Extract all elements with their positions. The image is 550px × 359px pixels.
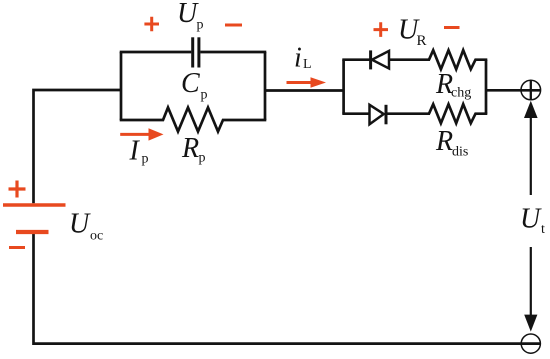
wire bottom branch middle segment — [386, 112, 430, 115]
diode network right edge — [485, 60, 488, 114]
svg-text:R: R — [417, 33, 427, 49]
svg-text:p: p — [197, 18, 204, 33]
svg-text:L: L — [303, 57, 312, 72]
RC box right edge — [264, 52, 267, 120]
wire middle from RC box to diode network — [265, 89, 344, 92]
svg-text:U: U — [520, 204, 542, 235]
capacitor Cp right plate — [197, 37, 200, 67]
svg-text:C: C — [181, 68, 200, 99]
diode network left edge — [342, 60, 345, 114]
battery U_oc long plate — [3, 203, 66, 207]
wire bottom branch left segment — [342, 112, 369, 115]
svg-text:p: p — [142, 152, 149, 167]
RC box left edge — [120, 52, 123, 120]
battery U_oc short plate — [16, 230, 49, 234]
label UR minus (red) — [444, 26, 460, 29]
arrow Ut upper (pointing up to + terminal) — [530, 116, 532, 195]
svg-text:p: p — [201, 88, 208, 103]
svg-text:p: p — [199, 151, 206, 166]
wire top of RC box left of capacitor — [120, 51, 192, 54]
wire bottom-left from battery to bottom rail and to negative terminal — [34, 232, 541, 344]
wire top of RC box right of capacitor — [200, 51, 266, 54]
diode D1 triangle — [372, 51, 389, 69]
wire top branch left segment — [342, 58, 370, 61]
svg-text:R: R — [181, 133, 199, 164]
label + UR - (red plus) — [374, 22, 389, 37]
svg-text:U: U — [69, 208, 91, 239]
svg-text:i: i — [294, 43, 302, 74]
negative terminal circle (minus formed by bottom rail passing through) — [521, 334, 540, 353]
capacitor Cp left plate — [191, 37, 194, 67]
svg-text:I: I — [129, 136, 141, 167]
diode D2 cathode bar — [385, 105, 388, 125]
svg-text:chg: chg — [451, 86, 471, 101]
current arrow iL (red) — [287, 81, 313, 84]
svg-text:t: t — [541, 222, 545, 237]
arrow Ut lower (pointing down to - terminal) — [530, 247, 532, 316]
label + Up - (red plus) — [144, 17, 159, 32]
diode D2 triangle (bottom branch, pointing right) — [370, 105, 384, 125]
current arrow Ip (red) — [120, 133, 150, 136]
resistor Rdis — [429, 104, 487, 123]
wire top branch middle segment — [389, 58, 430, 61]
wire output from diode network to positive terminal — [486, 89, 541, 92]
resistor Rchg — [429, 50, 487, 69]
wire top-left from battery to RC box — [34, 90, 122, 203]
svg-text:dis: dis — [452, 145, 468, 160]
battery minus sign — [9, 246, 25, 249]
resistor Rp with bottom wire of RC box — [120, 108, 267, 132]
label Up minus (red) — [225, 24, 242, 27]
svg-text:oc: oc — [90, 228, 103, 243]
diode D1 cathode bar (top branch, pointing left) — [369, 50, 372, 69]
positive terminal circle with plus — [521, 80, 541, 100]
svg-text:R: R — [435, 126, 453, 157]
battery plus sign — [9, 181, 26, 198]
